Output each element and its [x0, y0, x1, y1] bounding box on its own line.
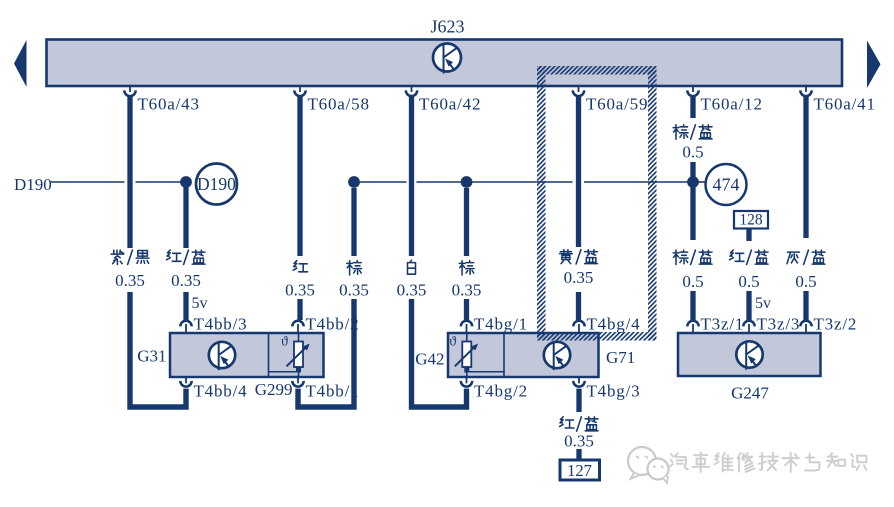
- svg-text:128: 128: [739, 212, 763, 229]
- svg-text:J623: J623: [430, 17, 464, 37]
- svg-text:T4bg/1: T4bg/1: [474, 315, 528, 334]
- svg-text:T4bg/3: T4bg/3: [587, 382, 641, 401]
- svg-text:0.5: 0.5: [738, 272, 759, 291]
- svg-text:T4bb/2: T4bb/2: [306, 315, 360, 334]
- svg-text:G71: G71: [606, 348, 635, 367]
- svg-text:G247: G247: [731, 384, 769, 403]
- svg-text:T60a/42: T60a/42: [419, 95, 481, 114]
- svg-text:T4bg/4: T4bg/4: [587, 315, 641, 334]
- svg-text:0.35: 0.35: [564, 268, 594, 287]
- svg-text:T3z/1: T3z/1: [701, 315, 745, 334]
- svg-text:T60a/41: T60a/41: [814, 95, 876, 114]
- svg-text:0.5: 0.5: [682, 143, 703, 162]
- svg-text:G299: G299: [255, 380, 293, 399]
- svg-text:T60a/43: T60a/43: [138, 95, 200, 114]
- svg-text:T60a/59: T60a/59: [586, 95, 648, 114]
- svg-text:T60a/12: T60a/12: [701, 95, 763, 114]
- svg-text:T4bb/1: T4bb/1: [306, 382, 360, 401]
- svg-text:0.35: 0.35: [564, 432, 594, 451]
- svg-text:T3z/3: T3z/3: [757, 315, 801, 334]
- svg-text:0.5: 0.5: [682, 272, 703, 291]
- svg-text:G31: G31: [137, 347, 166, 366]
- svg-text:0.35: 0.35: [171, 271, 201, 290]
- svg-text:D190: D190: [14, 175, 52, 194]
- svg-text:0.35: 0.35: [115, 271, 145, 290]
- svg-text:T4bb/3: T4bb/3: [194, 315, 248, 334]
- svg-text:474: 474: [713, 175, 740, 195]
- svg-text:0.5: 0.5: [795, 272, 816, 291]
- svg-text:0.35: 0.35: [452, 281, 482, 300]
- svg-text:ϑ: ϑ: [281, 335, 288, 350]
- svg-text:T60a/58: T60a/58: [308, 95, 370, 114]
- svg-text:5v: 5v: [755, 295, 771, 312]
- svg-text:T3z/2: T3z/2: [814, 315, 858, 334]
- svg-text:0.35: 0.35: [397, 281, 427, 300]
- svg-text:0.35: 0.35: [339, 281, 369, 300]
- svg-text:5v: 5v: [192, 295, 208, 312]
- svg-text:D190: D190: [197, 174, 236, 194]
- svg-text:G42: G42: [415, 350, 444, 369]
- svg-text:ϑ: ϑ: [449, 335, 456, 350]
- svg-text:0.35: 0.35: [285, 281, 315, 300]
- svg-text:T4bb/4: T4bb/4: [194, 382, 248, 401]
- svg-text:127: 127: [567, 461, 592, 480]
- svg-text:T4bg/2: T4bg/2: [474, 382, 528, 401]
